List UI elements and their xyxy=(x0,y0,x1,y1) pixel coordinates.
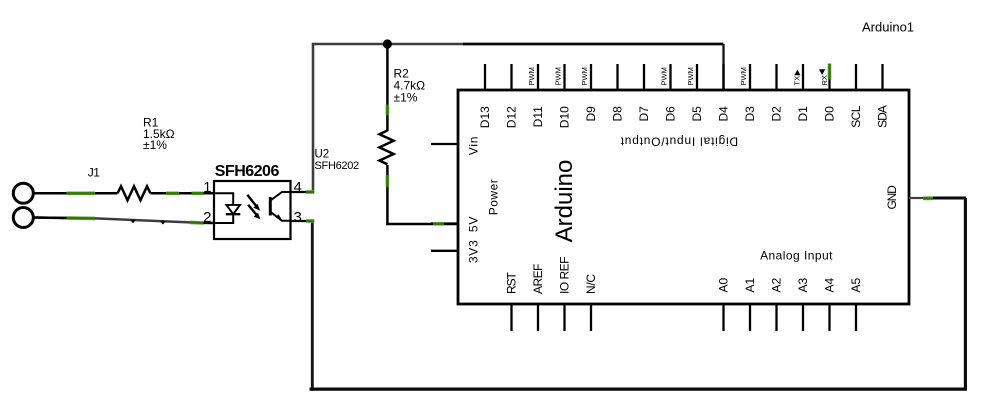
wire: left vertical from top bus down to U2 pin 4 xyxy=(312,43,315,192)
U2 pin 2 stub xyxy=(196,222,214,224)
light arrow 2 xyxy=(248,205,257,216)
svg-text:PWM: PWM xyxy=(739,67,748,85)
green net segment: R1 to U2 xyxy=(166,192,179,196)
svg-text:D11: D11 xyxy=(531,106,545,127)
svg-text:D0: D0 xyxy=(823,106,837,122)
svg-text:PWM: PWM xyxy=(554,67,563,85)
LED inside U2 xyxy=(214,193,233,204)
green net segment: J1 pin1 wire xyxy=(67,105,934,224)
svg-text:Power: Power xyxy=(487,179,501,216)
green net segment: 5V pin xyxy=(433,222,444,226)
wire: R1 to U2 pin1 xyxy=(151,192,215,195)
emitter arrowhead xyxy=(276,214,283,221)
node: junction dot on top bus xyxy=(383,39,392,48)
svg-text:Digital Input/Output: Digital Input/Output xyxy=(620,135,738,149)
svg-text:A2: A2 xyxy=(770,277,784,292)
Arduino right pin stub GND xyxy=(909,197,923,199)
svg-text:D7: D7 xyxy=(637,106,651,122)
svg-text:±1%: ±1% xyxy=(143,138,167,152)
light arrow 1 xyxy=(247,195,256,207)
connector J1 pin 2 circle xyxy=(13,208,33,228)
green net segment: R2 top lead xyxy=(386,105,390,116)
svg-text:D6: D6 xyxy=(664,106,678,122)
svg-text:GND: GND xyxy=(885,185,899,210)
svg-text:Vin: Vin xyxy=(467,136,481,156)
svg-text:D4: D4 xyxy=(717,106,731,122)
Arduino analog pin stubs A0..A5 xyxy=(724,304,857,331)
svg-text:D8: D8 xyxy=(611,106,625,122)
wire: J1 pin1 to R1 xyxy=(34,192,118,195)
U2 pin 3 stub xyxy=(291,220,314,222)
svg-text:RX: RX xyxy=(820,75,829,85)
svg-text:PWM: PWM xyxy=(580,67,589,85)
green segment on D0 pin (RX) xyxy=(828,64,832,80)
svg-text:5V: 5V xyxy=(467,216,481,232)
wire: bottom bus xyxy=(310,387,967,390)
phototransistor inside U2 xyxy=(269,197,272,216)
wire: GND pin to right vertical xyxy=(923,197,966,200)
wire: top bus from U2 pin4 / R2 / D4 xyxy=(313,43,463,45)
resistor R2 leads xyxy=(386,44,389,131)
svg-text:PWM: PWM xyxy=(527,67,536,85)
bendpoint marks on J1-U2 wire xyxy=(130,220,136,223)
svg-text:SFH6202: SFH6202 xyxy=(315,160,360,172)
Arduino top pin labels xyxy=(478,105,890,128)
analog pin labels xyxy=(717,277,864,292)
svg-text:PWM: PWM xyxy=(686,67,695,85)
svg-text:D10: D10 xyxy=(558,106,572,128)
svg-text:±1%: ±1% xyxy=(394,91,418,105)
svg-text:J1: J1 xyxy=(88,166,101,180)
svg-text:4: 4 xyxy=(294,179,302,196)
bottom-left pin labels xyxy=(505,257,599,294)
Arduino bottom-left pin stubs RST/AREF/IO REF/N/C xyxy=(512,304,592,331)
svg-text:D5: D5 xyxy=(690,106,704,122)
svg-text:U2: U2 xyxy=(315,149,330,161)
PWM labels xyxy=(527,67,829,85)
svg-text:A5: A5 xyxy=(849,277,863,292)
svg-text:PWM: PWM xyxy=(660,67,669,85)
svg-text:AREF: AREF xyxy=(531,264,545,294)
svg-text:SFH6206: SFH6206 xyxy=(215,163,280,180)
svg-text:D12: D12 xyxy=(505,106,519,128)
svg-text:D3: D3 xyxy=(743,106,757,122)
svg-text:IO REF: IO REF xyxy=(558,257,572,294)
svg-text:D2: D2 xyxy=(770,106,784,122)
Arduino top pin stubs D13..SDA xyxy=(485,64,883,90)
resistor R2 zigzag xyxy=(379,131,393,165)
wire: J1 pin2 to U2 pin2 (sloped) xyxy=(34,218,215,224)
svg-text:D13: D13 xyxy=(478,106,492,128)
svg-text:A3: A3 xyxy=(796,277,810,292)
wire: vertical drop to Arduino D4 pin xyxy=(722,44,724,90)
svg-text:Arduino: Arduino xyxy=(551,160,578,243)
green net segment: GND pin xyxy=(923,196,933,200)
green net segment: R2 bottom lead xyxy=(386,175,390,187)
svg-text:RST: RST xyxy=(505,272,519,294)
Arduino left pin stubs Vin/5V/3V3 xyxy=(431,144,458,251)
svg-text:Analog Input: Analog Input xyxy=(760,249,833,263)
svg-text:D1: D1 xyxy=(796,106,810,122)
svg-text:SCL: SCL xyxy=(849,105,863,127)
svg-text:A0: A0 xyxy=(717,277,731,292)
svg-text:A1: A1 xyxy=(743,277,757,292)
svg-text:A4: A4 xyxy=(823,277,837,292)
optocoupler U2 SFH6206 body xyxy=(214,181,291,239)
connector J1 pin 1 circle xyxy=(13,183,33,203)
green net segment: U2 pin4 stub end xyxy=(306,190,314,194)
left pin labels xyxy=(467,136,481,263)
Arduino U1 body xyxy=(458,90,909,304)
U2 pin 4 stub xyxy=(291,191,314,193)
resistor R1 zigzag xyxy=(118,186,151,200)
svg-text:Arduino1: Arduino1 xyxy=(862,20,914,35)
svg-text:3V3: 3V3 xyxy=(467,239,481,263)
svg-text:TX: TX xyxy=(793,76,802,86)
svg-text:N/C: N/C xyxy=(584,274,598,294)
U2 pin 1 stub xyxy=(196,192,214,194)
wire: left vertical from U2 pin 3 down to bottom bus xyxy=(311,221,314,391)
svg-text:3: 3 xyxy=(294,209,302,226)
svg-text:D9: D9 xyxy=(584,106,598,122)
green net segment: U2 pin3 stub end xyxy=(306,219,314,223)
svg-text:SDA: SDA xyxy=(876,105,890,128)
green net segment: J1 pin2 wire xyxy=(67,216,96,220)
wire: right vertical from GND to bottom bus xyxy=(964,198,967,391)
